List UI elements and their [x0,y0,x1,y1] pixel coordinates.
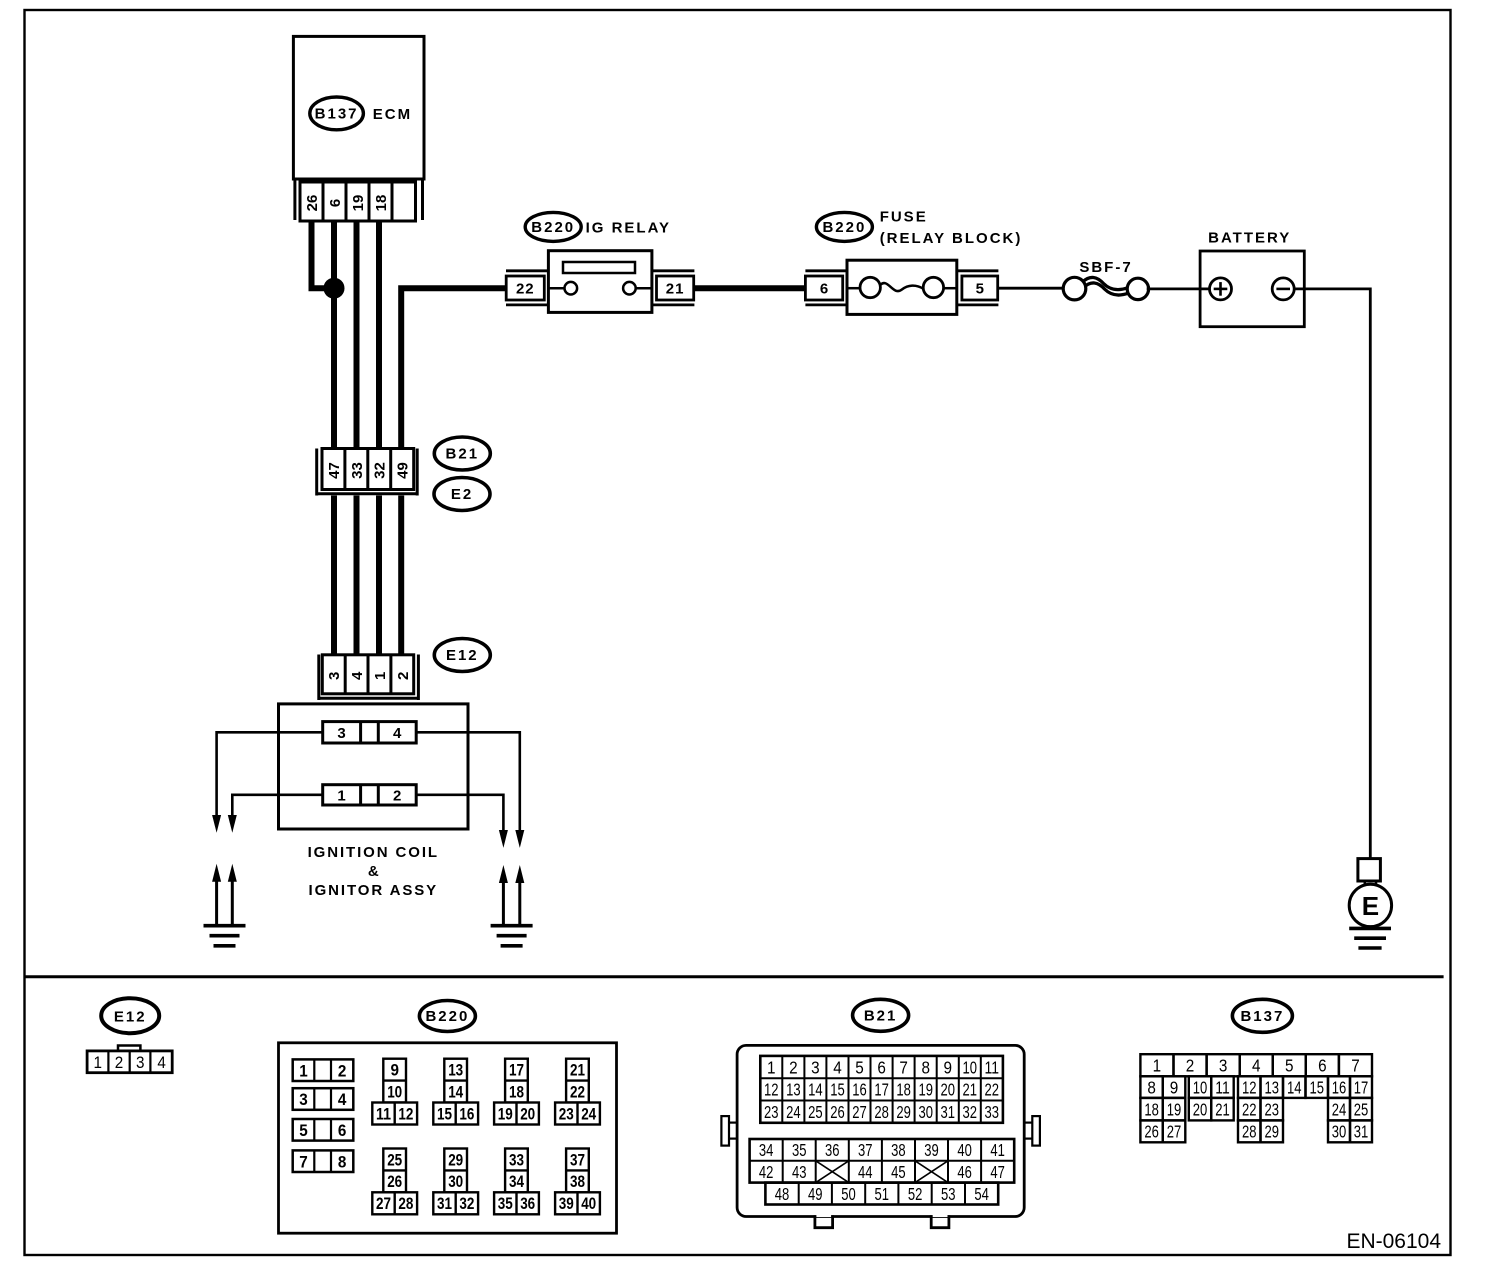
svg-text:22: 22 [1242,1099,1257,1119]
coil terminal row 1/2 [323,785,417,805]
svg-text:4: 4 [1252,1056,1261,1076]
svg-text:1: 1 [372,672,389,680]
svg-text:3: 3 [811,1057,820,1077]
svg-text:6: 6 [1318,1056,1327,1076]
svg-text:53: 53 [941,1184,956,1204]
svg-text:B137: B137 [315,105,359,122]
svg-text:35: 35 [792,1140,807,1160]
svg-text:3: 3 [337,725,345,742]
svg-text:B220: B220 [425,1008,469,1025]
svg-text:39: 39 [924,1140,939,1160]
B220 view pins 13-16 [433,1059,478,1125]
svg-text:39: 39 [559,1194,574,1213]
svg-text:4: 4 [393,725,402,742]
connector view B220 oval label [419,1001,475,1032]
svg-text:29: 29 [1265,1122,1280,1142]
svg-text:19: 19 [1167,1099,1182,1119]
svg-text:23: 23 [764,1102,779,1122]
connector view B21 oval label [853,999,909,1031]
B220 view pins 37-40 [555,1149,600,1215]
B21 view pin row (pins 48-54) [765,1183,998,1205]
svg-text:31: 31 [1354,1122,1369,1142]
svg-text:2: 2 [789,1057,798,1077]
svg-text:32: 32 [963,1102,978,1122]
svg-text:15: 15 [1310,1077,1325,1097]
svg-text:B21: B21 [446,446,480,463]
svg-text:12: 12 [764,1080,779,1100]
svg-text:E: E [1362,891,1379,921]
svg-text:6: 6 [327,199,344,207]
B21 view pin grid (pins 34-47) [750,1139,1015,1183]
svg-text:5: 5 [299,1121,308,1140]
svg-text:BATTERY: BATTERY [1208,229,1291,246]
B21 view pin grid (pins 1-33) [760,1056,1003,1123]
svg-text:38: 38 [570,1172,585,1191]
svg-text:9: 9 [1170,1077,1179,1097]
svg-text:7: 7 [899,1057,908,1077]
svg-text:3: 3 [1219,1056,1228,1076]
svg-text:12: 12 [1242,1077,1257,1097]
svg-text:3: 3 [326,672,343,680]
svg-text:25: 25 [387,1150,402,1169]
svg-text:32: 32 [372,462,389,479]
svg-text:16: 16 [852,1080,867,1100]
svg-text:35: 35 [498,1194,513,1213]
svg-text:2: 2 [115,1053,124,1072]
svg-text:16: 16 [459,1104,474,1123]
svg-text:52: 52 [908,1184,923,1204]
svg-text:16: 16 [1332,1077,1347,1097]
svg-text:37: 37 [570,1150,585,1169]
svg-text:20: 20 [1193,1099,1208,1119]
section divider line [25,975,1444,978]
battery positive terminal [1210,278,1232,300]
B220 view pins 29-32 [433,1149,478,1215]
B220 view pins 25-28 [372,1149,417,1215]
svg-text:27: 27 [1167,1122,1182,1142]
pin 21 (relay) [652,271,694,305]
svg-text:4: 4 [157,1053,166,1072]
svg-text:18: 18 [1144,1099,1159,1119]
wire coil terminal 4 to spark plug (down arrow) [416,732,524,848]
svg-text:7: 7 [299,1152,308,1171]
svg-text:6: 6 [820,281,828,298]
connector E12 pin row (pins 3,4,1,2) [319,655,419,701]
connector B137 pin row (pins 26,6,19,18) [300,182,416,221]
svg-text:18: 18 [509,1082,524,1101]
svg-text:E12: E12 [446,647,479,664]
svg-text:13: 13 [1265,1077,1280,1097]
svg-text:13: 13 [448,1061,463,1080]
svg-text:27: 27 [852,1102,867,1122]
svg-text:5: 5 [1285,1056,1294,1076]
svg-text:22: 22 [570,1082,585,1101]
connector oval label B137 [310,97,364,130]
wire ECM pin 18 down to B21 pin 32 [376,221,382,450]
svg-text:6: 6 [877,1057,886,1077]
svg-text:4: 4 [833,1057,842,1077]
B220 view pins 9-12 [372,1059,417,1125]
svg-text:30: 30 [448,1172,463,1191]
wire IG relay pin 22 to B21 pin 49 [401,288,506,450]
svg-text:28: 28 [398,1194,413,1213]
svg-text:33: 33 [349,462,366,479]
svg-text:27: 27 [376,1194,391,1213]
svg-text:28: 28 [874,1102,889,1122]
svg-text:30: 30 [918,1102,933,1122]
svg-text:21: 21 [1215,1099,1230,1119]
svg-text:24: 24 [1332,1099,1347,1119]
wire B21 pin 49 to E12 pin 2 [398,496,404,656]
fusible link SBF-7 [1063,277,1148,300]
svg-text:B21: B21 [864,1008,898,1025]
svg-text:45: 45 [891,1162,906,1182]
svg-text:33: 33 [509,1150,524,1169]
svg-text:21: 21 [963,1080,978,1100]
connector oval label E2 [434,478,490,511]
svg-text:3: 3 [299,1090,308,1109]
pin 22 (relay) [506,271,548,305]
svg-text:11: 11 [376,1104,391,1123]
svg-text:8: 8 [921,1057,930,1077]
svg-text:14: 14 [448,1082,463,1101]
svg-text:8: 8 [338,1152,347,1171]
svg-text:47: 47 [990,1162,1005,1182]
svg-text:24: 24 [786,1102,801,1122]
spark return up arrow (right inner) [499,865,508,926]
svg-text:5: 5 [855,1057,864,1077]
svg-text:13: 13 [786,1080,801,1100]
connector view B21 housing [721,1045,1040,1227]
svg-text:6: 6 [338,1121,347,1140]
svg-text:19: 19 [350,195,367,212]
wire B21 pin 47 to E12 pin 3 [331,496,337,656]
svg-text:32: 32 [459,1194,474,1213]
ignition coil & ignitor assy box [279,704,469,829]
svg-text:20: 20 [940,1080,955,1100]
svg-text:26: 26 [830,1102,845,1122]
svg-text:37: 37 [858,1140,873,1160]
svg-text:1: 1 [767,1057,776,1077]
svg-text:28: 28 [1242,1122,1257,1142]
coil terminal row 3/4 [323,722,417,743]
svg-text:10: 10 [1193,1077,1208,1097]
ground (left, spark plugs) [204,926,246,946]
svg-text:SBF-7: SBF-7 [1079,259,1132,276]
IGNITION COIL & IGNITOR ASSY label [308,844,439,899]
B220 view pins 33-36 [494,1149,539,1215]
svg-text:B220: B220 [531,219,575,236]
wire coil terminal 2 to spark plug (down arrow) [416,795,508,848]
ECM U B137 [293,36,424,220]
svg-text:46: 46 [957,1162,972,1182]
svg-text:4: 4 [349,671,366,680]
svg-text:51: 51 [875,1184,890,1204]
svg-text:24: 24 [581,1104,596,1123]
svg-text:1: 1 [299,1061,308,1080]
B220 view pins 17-20 [494,1059,539,1125]
svg-text:26: 26 [1144,1122,1159,1142]
wire battery negative to ground E [1294,289,1370,859]
svg-text:&: & [368,863,379,880]
svg-text:IGNITION COIL: IGNITION COIL [308,844,439,861]
svg-text:2: 2 [393,787,401,804]
svg-text:2: 2 [395,672,412,680]
svg-text:23: 23 [1265,1099,1280,1119]
svg-text:29: 29 [448,1150,463,1169]
svg-text:7: 7 [1351,1056,1360,1076]
svg-text:23: 23 [559,1104,574,1123]
connector oval label B220 (fuse) [816,212,872,241]
svg-text:14: 14 [1287,1077,1302,1097]
battery negative terminal [1272,278,1294,300]
svg-text:38: 38 [891,1140,906,1160]
svg-text:36: 36 [520,1194,535,1213]
svg-text:2: 2 [338,1061,347,1080]
svg-text:31: 31 [437,1194,452,1213]
svg-text:1: 1 [93,1053,102,1072]
connector oval label B220 (IG relay) [525,212,581,241]
svg-text:34: 34 [509,1172,524,1191]
wire ECM pin 19 down to B21 pin 33 [354,221,360,450]
svg-text:54: 54 [974,1184,989,1204]
svg-text:30: 30 [1332,1122,1347,1142]
svg-text:18: 18 [373,195,390,212]
svg-text:11: 11 [985,1057,1000,1077]
wire coil terminal 3 to spark plug (down arrow) [212,732,323,832]
wire ECM pin 26 to junction [312,221,335,288]
svg-text:11: 11 [1215,1077,1230,1097]
relay K B220 IG RELAY [548,251,652,313]
B220 view pins 1-2 [293,1059,354,1081]
svg-text:E2: E2 [451,486,473,503]
svg-text:47: 47 [326,462,343,479]
svg-text:22: 22 [516,281,535,298]
pin 6 (fuse) [805,271,847,305]
svg-text:15: 15 [437,1104,452,1123]
connector view E12 oval label [101,998,159,1033]
svg-text:EN-06104: EN-06104 [1346,1230,1441,1253]
svg-text:5: 5 [976,281,984,298]
fuse F (relay block) [847,260,957,314]
spark return up arrow (left outer) [212,864,221,926]
battery BT [1200,251,1304,327]
svg-text:14: 14 [808,1080,823,1100]
connector view E12 (pins 1-4) [87,1046,172,1073]
svg-text:44: 44 [858,1162,873,1182]
svg-text:19: 19 [498,1104,513,1123]
svg-text:43: 43 [792,1162,807,1182]
ground E (body ground) [1349,859,1391,948]
svg-text:9: 9 [943,1057,952,1077]
svg-text:33: 33 [985,1102,1000,1122]
svg-text:B220: B220 [822,219,866,236]
svg-text:40: 40 [957,1140,972,1160]
svg-text:IG RELAY: IG RELAY [586,219,671,236]
svg-text:31: 31 [940,1102,955,1122]
svg-text:25: 25 [808,1102,823,1122]
svg-text:4: 4 [338,1090,347,1109]
svg-text:22: 22 [985,1080,1000,1100]
connector oval label B21 [434,437,490,470]
svg-text:29: 29 [896,1102,911,1122]
connector oval label E12 [434,639,490,672]
connector view B137 oval label [1232,999,1292,1032]
svg-text:34: 34 [759,1140,774,1160]
svg-text:ECM: ECM [373,106,412,123]
spark return up arrow (left inner) [228,864,237,926]
ground (right, spark plugs) [491,926,533,946]
svg-text:1: 1 [1153,1056,1162,1076]
svg-text:E12: E12 [114,1008,147,1025]
svg-text:17: 17 [1354,1077,1369,1097]
B220 view pins 5-6 [293,1119,354,1141]
wire coil terminal 1 to spark plug (down arrow) [228,795,323,833]
wire fuse pin 5 to SBF-7 [998,287,1064,290]
svg-text:2: 2 [1186,1056,1195,1076]
B220 view pins 3-4 [293,1088,354,1110]
svg-text:21: 21 [666,281,685,298]
svg-text:17: 17 [874,1080,889,1100]
pin 5 (fuse) [957,271,999,305]
wire ECM pin 6 down to B21 pin 47 [331,221,337,450]
FUSE (RELAY BLOCK) label [880,209,1023,248]
wire relay pin 21 to fuse pin 6 [694,285,806,291]
svg-text:IGNITOR ASSY: IGNITOR ASSY [309,882,439,899]
svg-text:50: 50 [841,1184,856,1204]
svg-text:1: 1 [337,787,345,804]
connector B21/E2 pin row (pins 47,33,32,49) [317,449,418,496]
svg-text:(RELAY BLOCK): (RELAY BLOCK) [880,230,1023,247]
svg-text:12: 12 [398,1104,413,1123]
connector view B137 pin grid (pins 1-31) [1140,1054,1372,1142]
wire B21 pin 32 to E12 pin 1 [376,496,382,656]
svg-text:17: 17 [509,1061,524,1080]
svg-text:49: 49 [395,462,412,479]
svg-text:49: 49 [808,1184,823,1204]
svg-text:26: 26 [387,1172,402,1191]
svg-text:18: 18 [896,1080,911,1100]
svg-text:21: 21 [570,1061,585,1080]
spark return up arrow (right outer) [515,865,524,926]
svg-text:3: 3 [136,1053,145,1072]
svg-text:19: 19 [918,1080,933,1100]
svg-text:20: 20 [520,1104,535,1123]
B220 view pins 7-8 [293,1150,354,1172]
B220 view pins 21-24 [555,1059,600,1125]
svg-text:FUSE: FUSE [880,209,928,226]
svg-text:48: 48 [775,1184,790,1204]
svg-text:10: 10 [387,1082,402,1101]
junction dot [324,278,345,299]
connector view B220 housing [279,1043,617,1233]
svg-text:36: 36 [825,1140,840,1160]
wire B21 pin 33 to E12 pin 4 [354,496,360,656]
svg-text:41: 41 [990,1140,1005,1160]
svg-text:25: 25 [1354,1099,1369,1119]
wire SBF-7 to battery positive [1147,287,1210,290]
svg-text:B137: B137 [1240,1008,1284,1025]
svg-text:40: 40 [581,1194,596,1213]
svg-text:9: 9 [390,1061,399,1080]
svg-text:26: 26 [304,195,321,212]
svg-text:10: 10 [963,1057,978,1077]
svg-text:8: 8 [1147,1077,1156,1097]
svg-text:42: 42 [759,1162,774,1182]
svg-text:15: 15 [830,1080,845,1100]
